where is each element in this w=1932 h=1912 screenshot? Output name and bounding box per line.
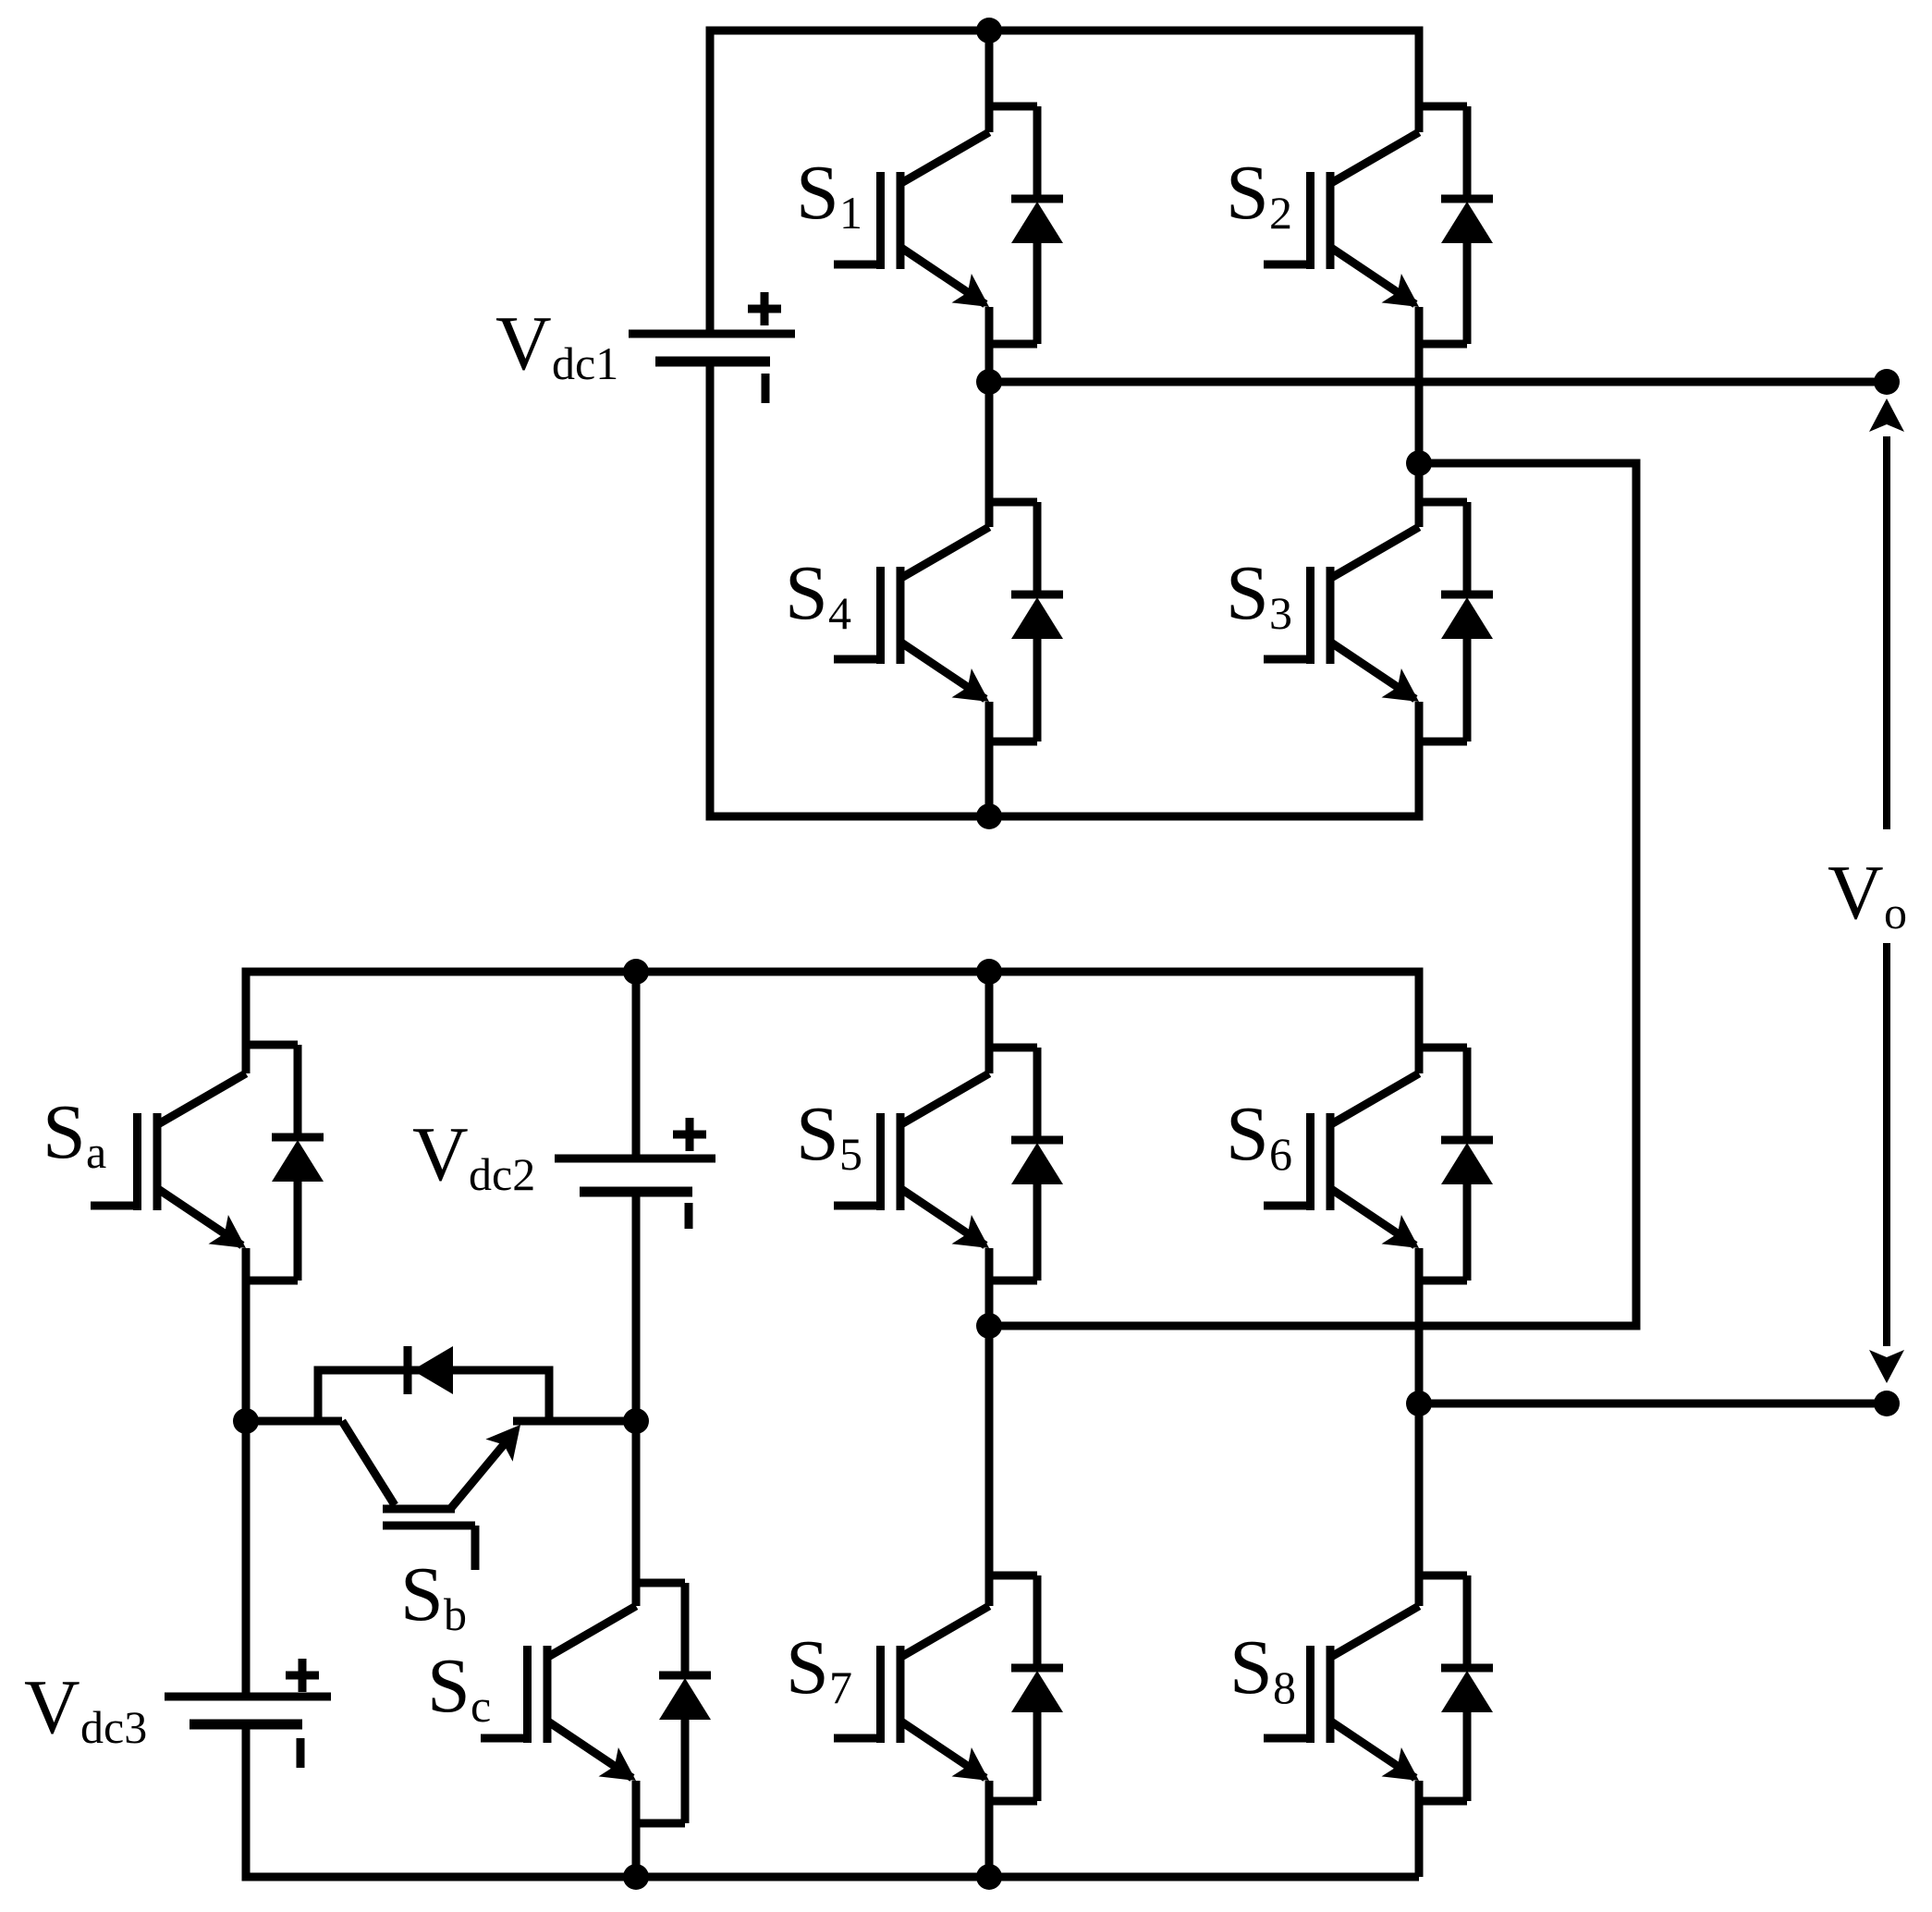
svg-text:7: 7 [829, 1661, 852, 1713]
svg-text:6: 6 [1269, 1128, 1292, 1180]
svg-text:V: V [1828, 850, 1884, 936]
svg-text:S: S [427, 1643, 471, 1729]
svg-text:dc2: dc2 [469, 1148, 535, 1200]
svg-text:dc1: dc1 [552, 337, 618, 389]
svg-text:S: S [1229, 1624, 1273, 1710]
svg-text:V: V [495, 300, 552, 386]
svg-text:b: b [444, 1588, 467, 1640]
svg-text:V: V [24, 1664, 80, 1750]
svg-text:S: S [796, 1091, 839, 1177]
svg-text:S: S [1226, 1091, 1269, 1177]
svg-text:S: S [1226, 150, 1269, 236]
svg-text:4: 4 [828, 587, 851, 639]
svg-text:S: S [1226, 550, 1269, 636]
svg-text:S: S [796, 150, 839, 236]
svg-text:o: o [1884, 887, 1907, 938]
svg-text:5: 5 [839, 1128, 862, 1180]
svg-text:1: 1 [839, 187, 862, 239]
svg-text:S: S [400, 1551, 444, 1637]
svg-text:S: S [785, 550, 828, 636]
svg-text:c: c [471, 1680, 491, 1732]
svg-text:2: 2 [1269, 187, 1292, 239]
svg-text:S: S [43, 1089, 86, 1175]
svg-text:V: V [412, 1111, 469, 1197]
svg-text:a: a [86, 1126, 106, 1178]
svg-text:S: S [786, 1624, 829, 1710]
svg-text:3: 3 [1269, 587, 1292, 639]
svg-text:dc3: dc3 [80, 1701, 147, 1753]
svg-text:8: 8 [1273, 1661, 1296, 1713]
